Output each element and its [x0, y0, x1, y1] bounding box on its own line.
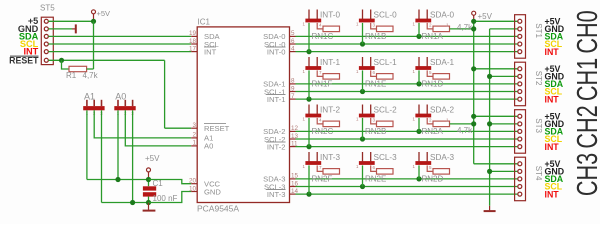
svg-text:6: 6 [373, 165, 376, 170]
wire +5V rail vertical [473, 21, 475, 164]
resistor RN2B [377, 121, 394, 127]
svg-text:4: 4 [291, 45, 295, 52]
svg-text:10: 10 [189, 185, 197, 192]
junction RESET/R1 [59, 58, 64, 63]
jumper A0 [114, 106, 135, 110]
junction +5V rail / RN2A [471, 121, 476, 126]
junction GND rail ch2 [487, 121, 492, 126]
wire R1 riser to +5V [93, 21, 95, 69]
svg-text:INT-1: INT-1 [267, 95, 286, 104]
svg-text:A1: A1 [84, 91, 95, 101]
IC1 pin 10 GND [191, 191, 197, 193]
svg-text:2: 2 [429, 22, 432, 27]
IC1 pin 8 SDA-1 [290, 83, 296, 85]
wire SCL-2 bus [296, 138, 518, 140]
wire +5V distribution line [87, 179, 149, 181]
svg-text:7: 7 [291, 93, 295, 100]
svg-text:+5V: +5V [145, 154, 160, 163]
svg-text:7: 7 [319, 70, 322, 75]
wire +5V to ST4 pin1 [474, 163, 518, 165]
connector ST2 [515, 62, 526, 105]
svg-text:R1: R1 [66, 71, 77, 80]
wire GND stub from ST5.2 [48, 28, 72, 30]
svg-text:ST1: ST1 [534, 23, 543, 38]
resistor RN1C [323, 26, 340, 32]
junction +5V rail ch2 [471, 114, 476, 119]
jumper SCL-0 pullup (solder jumper) [359, 19, 375, 23]
svg-text:A0: A0 [204, 142, 213, 151]
wire GND to IC GND pin10 [149, 192, 192, 203]
svg-text:INT-2: INT-2 [320, 105, 340, 114]
junction A0 pin1 on +5V line [115, 177, 120, 182]
IC1 pin 3 RESET [191, 127, 197, 129]
IC1 pin 7 INT-1 [290, 98, 296, 100]
resistor RN2E [377, 169, 394, 175]
wire GND to ST2 pin2 [490, 75, 518, 77]
resistor RN1B [377, 26, 394, 32]
jumper SDA-3 pullup (solder jumper) [415, 161, 431, 165]
IC1 pin 6 SCL-0 [290, 43, 296, 45]
wire INT-0 bus [296, 51, 518, 53]
svg-text:ST3: ST3 [534, 118, 543, 133]
wire SDA-0 jumper to resistor [427, 23, 433, 29]
wire +5V to ST1 pin1 [474, 20, 518, 22]
jumper SCL-2 pullup (solder jumper) [359, 114, 375, 118]
svg-text:SDA-1: SDA-1 [430, 58, 455, 67]
wire SCL-2 jumper to bus [362, 118, 364, 139]
wire SDA-2 jumper to resistor [427, 118, 433, 124]
junction SDA-0 pullup [416, 34, 421, 39]
capacitor C1 [143, 186, 156, 190]
junction GND rail ch1 [487, 74, 492, 79]
svg-text:CH1: CH1 [572, 58, 600, 101]
wire SDA-1 bus [296, 83, 518, 85]
wire INT-0 jumper to resistor [317, 23, 323, 29]
wire INT-2 jumper to resistor [317, 118, 323, 124]
wire SDA-3 jumper to resistor [427, 165, 433, 171]
svg-text:RN2B: RN2B [365, 127, 386, 136]
jumper INT-0 pullup (solder jumper) [305, 19, 321, 23]
connector ST3 [515, 110, 526, 154]
svg-text:7: 7 [319, 165, 322, 170]
svg-text:INT: INT [545, 94, 560, 104]
jumper A1 [83, 106, 104, 110]
svg-text:RN2D: RN2D [422, 175, 444, 184]
svg-text:A0: A0 [115, 91, 126, 101]
wire SCL bus ST5.4 to IC pin18 [48, 43, 191, 45]
junction A0 pin3 on GND line [130, 200, 135, 205]
svg-text:3: 3 [373, 22, 376, 27]
ground (below C1) [148, 203, 150, 210]
svg-text:INT: INT [545, 47, 560, 57]
svg-text:INT: INT [204, 47, 217, 56]
svg-text:RN1C: RN1C [312, 32, 334, 41]
wire GND to ST4 pin2 [490, 170, 518, 172]
wire SDA-1 jumper to resistor [427, 70, 433, 76]
svg-text:100 nF: 100 nF [153, 194, 178, 203]
wire GND rail vertical [489, 29, 491, 206]
svg-text:4,7k: 4,7k [457, 126, 473, 135]
resistor RN2C [323, 121, 340, 127]
junction SCL-3 pullup [360, 184, 365, 189]
svg-text:RN2A: RN2A [422, 127, 444, 136]
wire A1 pin3 to GND line [101, 110, 103, 202]
junction SCL-0 pullup [360, 41, 365, 46]
junction INT-0 pullup [306, 49, 311, 54]
IC1 pin 2 A1 [191, 137, 197, 139]
wire RESET vertical [164, 60, 166, 128]
svg-text:ST5: ST5 [40, 4, 55, 13]
svg-text:2: 2 [192, 132, 196, 139]
wire GND rail from ST1 pin2 [490, 28, 518, 30]
svg-text:ST2: ST2 [534, 71, 543, 86]
svg-text:RN2E: RN2E [365, 175, 386, 184]
svg-text:+5V: +5V [478, 12, 493, 21]
svg-text:5: 5 [291, 30, 295, 37]
wire SDA-3 jumper to bus [418, 165, 420, 179]
svg-text:INT-0: INT-0 [267, 47, 286, 56]
wire GND distribution line [102, 202, 149, 204]
IC1 pin 4 INT-0 [290, 51, 296, 53]
junction SDA-2 pullup [416, 129, 421, 134]
resistor R1 [69, 66, 87, 71]
wire SDA-0 bus [296, 35, 518, 37]
resistor RN2F [323, 169, 340, 175]
svg-text:RN1F: RN1F [312, 80, 333, 89]
svg-text:17: 17 [189, 45, 197, 52]
IC1 pin 14 INT-3 [290, 193, 296, 195]
wire SCL-0 bus [296, 43, 518, 45]
junction INT-3 pullup [306, 192, 311, 197]
wire INT bus ST5.5 to IC pin17 [48, 51, 191, 53]
wire A0 pin1 to +5V line [117, 110, 119, 179]
jumper INT-3 pullup (solder jumper) [305, 161, 321, 165]
svg-text:SCL-3: SCL-3 [374, 153, 398, 162]
jumper SCL-3 pullup (solder jumper) [359, 161, 375, 165]
wire SDA-0 jumper to bus [418, 23, 420, 37]
wire INT-1 jumper to resistor [317, 70, 323, 76]
svg-text:8: 8 [291, 78, 295, 85]
svg-text:ST4: ST4 [534, 166, 543, 181]
wire +5V to IC VCC pin20 [149, 180, 192, 184]
IC1 pin 17 INT [191, 51, 197, 53]
svg-text:SCL-1: SCL-1 [374, 58, 398, 67]
svg-text:INT-0: INT-0 [320, 10, 340, 19]
junction GND rail ch3 [487, 169, 492, 174]
wire SDA-2 jumper to bus [418, 118, 420, 131]
svg-text:SDA-0: SDA-0 [430, 10, 455, 19]
svg-text:2: 2 [429, 117, 432, 122]
svg-text:IC1: IC1 [198, 18, 211, 27]
IC1 pin 13 SCL-2 [290, 138, 296, 140]
svg-text:SDA-2: SDA-2 [430, 105, 455, 114]
svg-text:C1: C1 [153, 179, 164, 188]
svg-text:RESET: RESET [204, 124, 230, 133]
svg-text:PCA9545A: PCA9545A [197, 204, 239, 214]
IC1 pin 15 SDA-3 [290, 178, 296, 180]
wire SCL-2 jumper to resistor [371, 118, 377, 124]
ground (bottom right) [489, 206, 491, 211]
jumper INT-1 pullup (solder jumper) [305, 66, 321, 70]
wire SCL-0 jumper to bus [362, 23, 364, 44]
svg-text:GND: GND [204, 187, 221, 196]
supply +5V (top right) [472, 11, 476, 15]
svg-text:3: 3 [373, 117, 376, 122]
junction +5/R1 [91, 19, 96, 24]
jumper SDA-2 pullup (solder jumper) [415, 114, 431, 118]
wire INT-0 jumper to bus [308, 23, 310, 52]
svg-text:6: 6 [291, 38, 295, 45]
svg-text:RN1E: RN1E [365, 80, 386, 89]
wire +5V to ST3 pin1 [474, 115, 518, 117]
svg-text:RN1B: RN1B [365, 32, 386, 41]
wire RN SDA-0 pullup to +5V rail [450, 28, 474, 30]
junction C1/GND [146, 200, 151, 205]
svg-text:4: 4 [319, 22, 322, 27]
resistor RN1A [433, 26, 450, 32]
resistor RN2D [433, 169, 450, 175]
wire R1 right leg [87, 68, 94, 70]
svg-text:5: 5 [429, 70, 432, 75]
svg-text:INT-3: INT-3 [320, 153, 340, 162]
svg-text:1: 1 [446, 117, 449, 122]
wire +5 net ST5.1 to R1 riser [48, 20, 93, 22]
svg-text:SCL-0: SCL-0 [374, 10, 398, 19]
svg-text:CH3: CH3 [572, 153, 600, 196]
svg-text:CH2: CH2 [572, 105, 600, 148]
svg-text:INT: INT [545, 189, 560, 199]
svg-text:9: 9 [291, 85, 295, 92]
wire SDA-2 bus [296, 130, 518, 132]
wire +5V to ST2 pin1 [474, 68, 518, 70]
wire INT-3 bus [296, 193, 518, 195]
wire A0 pin2 to IC A0 [125, 110, 191, 146]
wire INT-2 bus [296, 146, 518, 148]
wire INT-1 jumper to bus [308, 70, 310, 99]
junction INT-2 pullup [306, 144, 311, 149]
wire A1 pin2 to IC A1 [94, 110, 191, 138]
svg-text:1: 1 [446, 22, 449, 27]
junction +5V rail / RN1A [471, 26, 476, 31]
svg-text:18: 18 [189, 38, 197, 45]
wire INT-3 jumper to resistor [317, 165, 323, 171]
svg-text:RN2C: RN2C [312, 127, 334, 136]
resistor RN1F [323, 74, 340, 80]
wire SDA-1 jumper to bus [418, 70, 420, 84]
svg-text:INT-3: INT-3 [267, 190, 286, 199]
wire SCL-1 jumper to resistor [371, 70, 377, 76]
connector ST5 [41, 17, 53, 64]
wire SCL-1 jumper to bus [362, 70, 364, 91]
wire SCL-3 bus [296, 186, 518, 188]
svg-text:RN1A: RN1A [422, 32, 444, 41]
wire INT-2 jumper to bus [308, 118, 310, 147]
svg-text:RN1D: RN1D [422, 80, 444, 89]
wire C1 bottom leg [148, 197, 150, 203]
jumper INT-2 pullup (solder jumper) [305, 114, 321, 118]
svg-text:+5V: +5V [97, 9, 111, 18]
svg-text:SCL-2: SCL-2 [374, 105, 398, 114]
svg-text:SDA-3: SDA-3 [430, 153, 455, 162]
ground (rotated, at ST5 pin2) [72, 28, 75, 30]
IC1 pin 19 SDA [191, 35, 197, 37]
IC1 pin 1 A0 [191, 145, 197, 147]
IC U1 box (PCA9545A) [197, 27, 289, 203]
supply +5V (at C1) [147, 168, 151, 172]
svg-text:1: 1 [192, 140, 196, 147]
resistor RN1D [433, 74, 450, 80]
svg-text:INT-2: INT-2 [267, 142, 286, 151]
junction SCL-1 pullup [360, 89, 365, 94]
IC1 pin 11 INT-2 [290, 146, 296, 148]
wire INT-1 bus [296, 98, 518, 100]
IC1 pin 5 SDA-0 [290, 35, 296, 37]
IC1 pin 12 SDA-2 [290, 130, 296, 132]
wire A0 pin3 to GND line [132, 110, 134, 202]
svg-text:4: 4 [319, 117, 322, 122]
svg-text:19: 19 [189, 30, 197, 37]
svg-text:3: 3 [192, 122, 196, 129]
wire C1 top leg [148, 180, 150, 187]
wire A1 pin1 to +5V line [86, 110, 88, 179]
resistor RN1E [377, 74, 394, 80]
svg-text:4,7k: 4,7k [83, 71, 99, 80]
IC1 pin 20 VCC [191, 183, 197, 185]
svg-text:4,7k: 4,7k [457, 23, 473, 32]
wire RESET net ST5.6 right [48, 59, 164, 61]
junction SCL-2 pullup [360, 136, 365, 141]
IC1 pin 18 SCL [191, 43, 197, 45]
connector ST4 [515, 157, 526, 201]
svg-text:RESET: RESET [9, 55, 39, 65]
wire SCL-0 jumper to resistor [371, 23, 377, 29]
svg-text:20: 20 [189, 178, 197, 185]
svg-text:CH0: CH0 [572, 10, 600, 53]
jumper SCL-1 pullup (solder jumper) [359, 66, 375, 70]
wire R1 left leg [62, 60, 70, 69]
wire INT-3 jumper to bus [308, 165, 310, 194]
svg-text:INT: INT [545, 142, 560, 152]
junction SDA-1 pullup [416, 81, 421, 86]
wire RN SDA-2 pullup to +5V rail [450, 123, 474, 125]
svg-text:5: 5 [429, 165, 432, 170]
junction SDA-3 pullup [416, 176, 421, 181]
junction +5V rail ch1 [471, 66, 476, 71]
jumper SDA-1 pullup (solder jumper) [415, 66, 431, 70]
wire SCL-1 bus [296, 91, 518, 93]
junction INT-1 pullup [306, 97, 311, 102]
IC1 pin 9 SCL-1 [290, 91, 296, 93]
junction C1/+5V [146, 177, 151, 182]
wire SDA bus ST5.3 to IC pin19 [48, 35, 191, 37]
wire SDA-3 bus [296, 178, 518, 180]
junction +5V rail top [471, 19, 476, 24]
connector ST1 [515, 15, 526, 59]
wire SCL-3 jumper to bus [362, 165, 364, 186]
IC1 pin 16 SCL-3 [290, 186, 296, 188]
svg-text:RN2F: RN2F [312, 175, 333, 184]
wire RESET to IC pin3 [165, 127, 192, 129]
svg-text:6: 6 [373, 70, 376, 75]
jumper SDA-0 pullup (solder jumper) [415, 19, 431, 23]
resistor RN2A [433, 121, 450, 127]
svg-text:INT-1: INT-1 [320, 58, 340, 67]
wire GND to ST3 pin2 [490, 123, 518, 125]
wire SCL-3 jumper to resistor [371, 165, 377, 171]
supply +5V (top left) [92, 10, 96, 14]
